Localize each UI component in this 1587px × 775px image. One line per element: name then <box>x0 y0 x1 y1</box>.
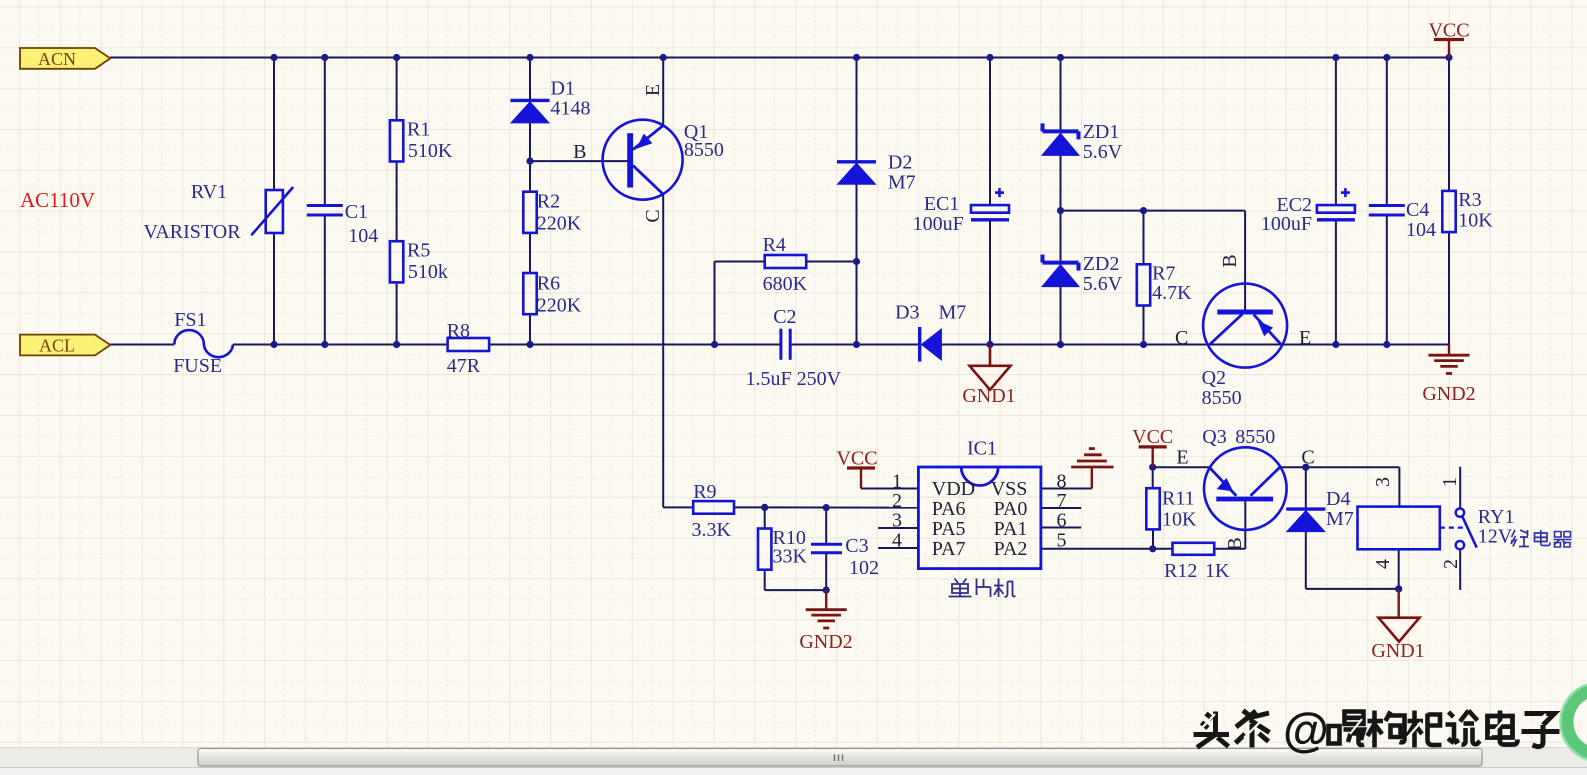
svg-text:Q2: Q2 <box>1202 367 1226 389</box>
wire C3 bottom lead <box>825 553 827 590</box>
earth power port at IC pin8 <box>1089 447 1095 450</box>
wire D2 branch top <box>856 58 858 162</box>
junction dot node B <box>526 158 533 165</box>
wire C4 branch <box>1386 58 1388 206</box>
wire Q1 collector down to R9 row <box>662 194 664 508</box>
wire D3 to right end of ACL rail <box>941 344 1449 346</box>
svg-text:R12: R12 <box>1164 560 1197 582</box>
zener ZD1 5.6V <box>1043 129 1079 133</box>
watermark logo text (hand-drawn CJK strokes) <box>1206 714 1213 720</box>
svg-text:104: 104 <box>1406 219 1436 241</box>
relay contact circle bottom <box>1456 541 1464 549</box>
scrollbar grip <box>834 755 836 762</box>
svg-text:C: C <box>1175 327 1188 349</box>
svg-text:GND2: GND2 <box>1422 383 1475 405</box>
relay contact blade <box>1462 517 1476 548</box>
svg-text:GND2: GND2 <box>799 631 852 653</box>
svg-text:Q3: Q3 <box>1202 426 1226 448</box>
wire fuse to R8 <box>233 344 448 346</box>
wire R11 bottom lead <box>1152 529 1154 548</box>
svg-text:4: 4 <box>1372 559 1394 569</box>
wire relay contact pin2 <box>1459 549 1461 590</box>
fuse FS1 <box>174 330 233 357</box>
junction dot R7 top <box>1140 207 1147 214</box>
op-amp/MCU IC1 box <box>918 467 1041 569</box>
svg-text:E: E <box>1299 327 1311 349</box>
svg-text:R11: R11 <box>1162 488 1195 510</box>
svg-text:R4: R4 <box>763 234 786 256</box>
wire R7 leads <box>1143 211 1145 265</box>
wire C2 right plate to D3 bar <box>790 344 918 346</box>
resistor R5 <box>390 241 403 282</box>
wire EC1 branch <box>989 58 991 206</box>
svg-text:3: 3 <box>892 510 902 532</box>
junction dot C3 top <box>823 504 830 511</box>
svg-text:B: B <box>1224 537 1246 550</box>
wire Q3 collector to relay <box>1280 466 1399 468</box>
svg-text:3.3K: 3.3K <box>692 519 732 541</box>
wire D4 bottom to GND1 junction <box>1305 531 1307 589</box>
diode D2 M7 <box>837 160 876 163</box>
svg-text:C: C <box>642 209 664 222</box>
svg-text:ZD1: ZD1 <box>1083 121 1120 143</box>
wire EC2 branch <box>1335 58 1337 206</box>
wire R11 top lead <box>1152 467 1154 488</box>
wire IC pin3 stub <box>878 527 918 529</box>
svg-text:8550: 8550 <box>684 139 724 161</box>
svg-text:4.7K: 4.7K <box>1152 282 1192 304</box>
svg-text:4: 4 <box>892 530 902 552</box>
svg-text:102: 102 <box>849 557 879 579</box>
svg-text:VDD: VDD <box>932 478 975 500</box>
port ACN <box>20 48 110 69</box>
scrollbar track <box>0 747 1587 768</box>
svg-text:C2: C2 <box>773 306 796 328</box>
relay RY1 coil <box>1358 507 1440 550</box>
svg-text:5.6V: 5.6V <box>1083 273 1123 295</box>
svg-text:RV1: RV1 <box>191 181 227 203</box>
wire ACN top rail <box>110 57 1449 59</box>
junction dot zener mid <box>1057 207 1064 214</box>
svg-text:100uF: 100uF <box>1261 213 1312 235</box>
svg-text:510K: 510K <box>408 140 453 162</box>
svg-text:VCC: VCC <box>1132 426 1173 448</box>
svg-text:D2: D2 <box>888 152 912 174</box>
junction dot VCC/R11 <box>1149 464 1156 471</box>
svg-text:FS1: FS1 <box>174 309 206 331</box>
relay contact circle top <box>1456 508 1464 516</box>
svg-text:M7: M7 <box>939 302 967 324</box>
resistor R12 1K <box>1173 543 1215 555</box>
svg-text:510k: 510k <box>408 261 448 283</box>
svg-text:ACN: ACN <box>38 49 76 69</box>
junction dot R10 top <box>761 504 768 511</box>
wire corner to R9 <box>663 506 693 508</box>
svg-text:1.5uF 250V: 1.5uF 250V <box>746 368 842 390</box>
svg-text:10K: 10K <box>1162 509 1197 531</box>
wire R9 to IC pin2 <box>734 506 918 508</box>
svg-text:ACL: ACL <box>39 336 75 356</box>
svg-text:C1: C1 <box>345 201 368 223</box>
svg-text:VCC: VCC <box>836 448 877 470</box>
wire IC pin1 from VCC <box>861 488 918 490</box>
svg-text:ZD2: ZD2 <box>1083 253 1120 275</box>
svg-text:6: 6 <box>1057 510 1067 532</box>
svg-text:47R: 47R <box>447 355 481 377</box>
transistor Q3 8550 <box>1204 447 1287 530</box>
resistor R3 <box>1442 191 1455 232</box>
svg-text:@: @ <box>1283 703 1329 756</box>
svg-text:8550: 8550 <box>1202 387 1242 409</box>
svg-text:PA7: PA7 <box>932 538 966 560</box>
ground GND2 right <box>1448 345 1450 356</box>
resistor R10 <box>758 529 771 570</box>
diode D3 M7 <box>918 327 921 362</box>
junction dot GND2 mid <box>823 587 830 594</box>
junction dot relay GND1 <box>1395 585 1402 592</box>
wire IC pin7 stub <box>1041 507 1081 509</box>
svg-text:4148: 4148 <box>551 98 591 120</box>
svg-text:M7: M7 <box>1326 508 1354 530</box>
svg-text:12V: 12V <box>1478 526 1513 548</box>
svg-text:D3: D3 <box>895 302 919 324</box>
capacitor C1 <box>307 204 343 207</box>
svg-text:PA6: PA6 <box>932 498 966 520</box>
junction dots top rail <box>270 54 277 61</box>
svg-text:R6: R6 <box>537 273 560 295</box>
svg-text:R9: R9 <box>693 481 716 503</box>
capacitor C3 102 <box>811 543 842 546</box>
svg-text:220K: 220K <box>537 213 582 235</box>
svg-text:10K: 10K <box>1458 210 1493 232</box>
junction dot R11/R12 <box>1149 545 1156 552</box>
wire Q1 emitter to top rail <box>662 58 664 126</box>
wire D2 branch bottom <box>856 184 858 344</box>
svg-text:PA5: PA5 <box>932 518 966 540</box>
svg-text:1K: 1K <box>1205 560 1230 582</box>
svg-text:5: 5 <box>1057 530 1067 552</box>
svg-text:EC1: EC1 <box>924 193 960 215</box>
resistor R2 <box>523 192 536 233</box>
wire ACL rail left (flag to fuse) <box>110 344 174 346</box>
svg-text:VSS: VSS <box>991 478 1028 500</box>
svg-text:PA2: PA2 <box>994 538 1028 560</box>
wire R10 top lead <box>764 507 766 528</box>
wire zener branch <box>1060 58 1062 130</box>
svg-text:M7: M7 <box>888 172 916 194</box>
svg-text:680K: 680K <box>763 273 808 295</box>
diode D1 4148 <box>511 99 550 102</box>
svg-text:104: 104 <box>348 225 378 247</box>
wire IC pin5 to R12 <box>1041 548 1173 550</box>
svg-text:R1: R1 <box>407 119 430 141</box>
wire R4 left lead <box>715 261 765 263</box>
svg-text:33K: 33K <box>773 546 808 568</box>
svg-text:R2: R2 <box>537 191 560 213</box>
wire zener junction to Q2 base <box>1061 210 1245 212</box>
ground GND2 below C3 <box>825 590 827 610</box>
svg-text:2: 2 <box>1440 559 1462 569</box>
resistor R7 <box>1137 264 1150 305</box>
svg-text:D4: D4 <box>1326 488 1350 510</box>
junction dots ACL rail <box>270 341 277 348</box>
transistor Q2 8550 <box>1203 284 1287 368</box>
wire R4 right lead <box>806 261 857 263</box>
wire RV1 branch <box>273 58 275 191</box>
svg-text:IC1: IC1 <box>967 438 997 460</box>
wire IC pin4 stub <box>878 547 918 549</box>
wire R8 to C2 left plate <box>489 344 781 346</box>
wire C1 branch <box>324 58 326 206</box>
svg-text:1: 1 <box>1439 477 1461 487</box>
resistor R11 <box>1146 488 1159 529</box>
wire node B to Q1 base <box>530 160 628 162</box>
svg-text:VARISTOR: VARISTOR <box>144 221 242 243</box>
resistor R8 <box>448 338 490 351</box>
wire C3 top lead <box>825 508 827 545</box>
svg-text:5.6V: 5.6V <box>1083 141 1123 163</box>
svg-text:GND1: GND1 <box>1371 640 1424 662</box>
svg-text:AC110V: AC110V <box>20 188 95 212</box>
resistor R6 <box>523 273 536 314</box>
watermark white slash highlights <box>1200 714 1215 730</box>
svg-text:C3: C3 <box>845 535 868 557</box>
relay dashed link <box>1440 526 1464 528</box>
svg-text:8550: 8550 <box>1235 426 1275 448</box>
svg-text:B: B <box>1219 254 1241 267</box>
junction dot R4 right <box>853 258 860 265</box>
svg-text:D1: D1 <box>551 78 575 100</box>
wire relay contact pin1 <box>1459 467 1461 509</box>
svg-text:E: E <box>642 84 664 96</box>
zener ZD2 5.6V <box>1043 261 1079 265</box>
svg-text:PA0: PA0 <box>994 498 1028 520</box>
svg-text:C4: C4 <box>1406 199 1429 221</box>
svg-text:100uF: 100uF <box>913 213 964 235</box>
svg-text:R5: R5 <box>407 240 430 262</box>
ground GND1 at EC1 <box>989 345 992 366</box>
bottom strip <box>0 767 1587 775</box>
wire D1/R2/R6 branch <box>529 58 531 100</box>
svg-text:R3: R3 <box>1458 189 1481 211</box>
diode D4 M7 <box>1286 507 1325 510</box>
wire IC pin6 stub <box>1041 527 1081 529</box>
ground GND1 at relay <box>1397 589 1399 618</box>
port ACL <box>20 335 110 356</box>
wire D4 top lead <box>1305 467 1307 508</box>
resistor R9 <box>693 501 734 514</box>
svg-text:R8: R8 <box>447 320 470 342</box>
svg-text:PA1: PA1 <box>994 518 1028 540</box>
resistor R1 <box>390 120 403 161</box>
wire IC pin8 to earth <box>1041 488 1092 490</box>
scrollbar thumb <box>198 749 1482 767</box>
wire VCC to R11/Q3 emitter <box>1153 466 1210 468</box>
IC1 label 单片机 (MCU) <box>955 579 959 584</box>
junction dot Q3 collector / D4 <box>1302 464 1309 471</box>
wire R3 branch <box>1448 58 1450 191</box>
svg-text:220K: 220K <box>537 295 582 317</box>
wire R12 to Q3 base <box>1214 548 1245 550</box>
svg-text:B: B <box>573 141 586 163</box>
watermark green ring logo <box>1567 689 1587 755</box>
svg-text:FUSE: FUSE <box>173 355 222 377</box>
capacitor EC2 100uF <box>1317 205 1355 213</box>
svg-text:3: 3 <box>1372 477 1394 487</box>
wire R10 bottom to GND2 junction <box>764 570 766 590</box>
capacitor C2 <box>779 329 782 360</box>
svg-text:C: C <box>1301 447 1314 469</box>
wire relay pin4 lead <box>1398 549 1400 589</box>
svg-text:E: E <box>1176 447 1188 469</box>
wire R1/R5 branch <box>396 58 398 121</box>
varistor RV1 <box>266 190 283 233</box>
transistor Q1 8550 <box>603 120 683 200</box>
capacitor C4 <box>1369 204 1405 207</box>
svg-text:GND1: GND1 <box>962 385 1015 407</box>
capacitor EC1 100uF <box>971 205 1009 213</box>
resistor R4 <box>765 255 807 268</box>
